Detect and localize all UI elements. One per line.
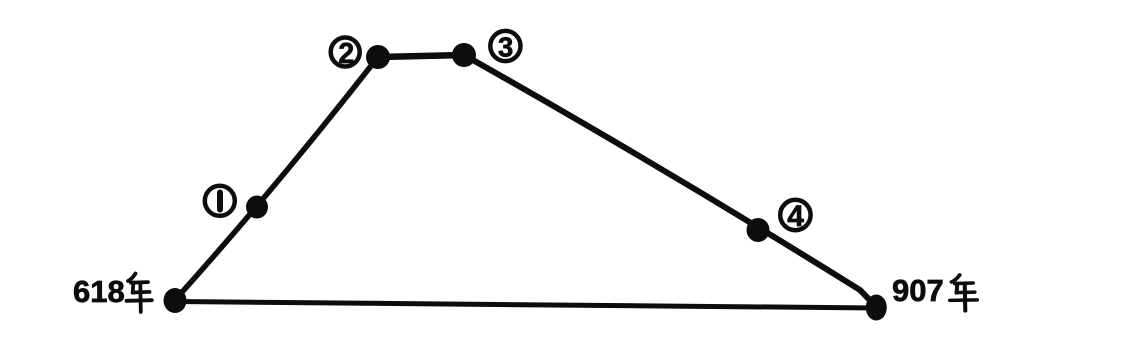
svg-text:2: 2: [338, 38, 354, 70]
svg-text:907: 907: [892, 273, 944, 308]
svg-text:618: 618: [73, 274, 125, 309]
svg-text:3: 3: [498, 32, 513, 63]
svg-text:4: 4: [787, 200, 804, 233]
